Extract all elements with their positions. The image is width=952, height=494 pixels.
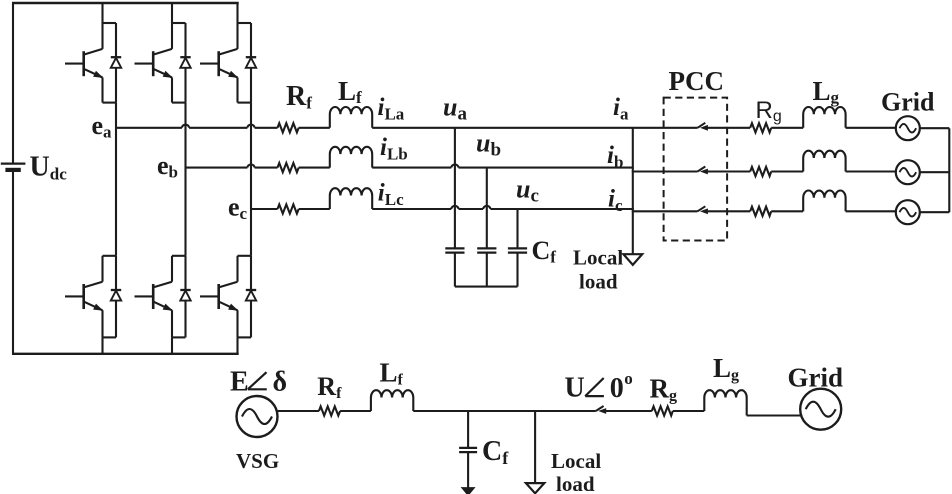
inductor Lg (equivalent) — [704, 390, 746, 415]
source grid phase b — [896, 160, 920, 184]
wire phase a: Rg to Lg — [771, 127, 803, 129]
wire phase c: hop to hop ub — [459, 208, 484, 210]
wire phase b: Rg to Lg — [771, 170, 803, 172]
wire phase b: Lf to hop ua — [372, 167, 451, 169]
svg-text:uc: uc — [516, 175, 539, 207]
transistor Q3 (IGBT upper leg c) — [238, 22, 252, 24]
transistor Q5 (IGBT lower leg b) — [172, 255, 186, 257]
wire phase c: Lg to grid source — [846, 210, 896, 212]
wire phase b: grid source to neutral bus — [920, 171, 950, 173]
svg-text:Udc: Udc — [30, 151, 68, 183]
svg-text:E: E — [230, 367, 249, 398]
battery Udc positive plate — [1, 162, 26, 164]
svg-text:Lg: Lg — [713, 353, 739, 384]
wire leg b bottom rail drop — [171, 337, 173, 353]
inductor Lf phase b — [330, 147, 372, 168]
wire DC bus left bottom — [12, 170, 14, 354]
svg-text:U: U — [565, 373, 585, 404]
source Grid (equivalent) — [800, 389, 841, 430]
wire phase a: Rf to Lf — [299, 127, 330, 129]
resistor Rg phase c — [750, 207, 771, 216]
wire DC bus left top — [12, 2, 14, 164]
source grid phase a — [896, 116, 920, 140]
wire grid neutral bus — [948, 128, 950, 212]
wire Rf to Lf — [340, 410, 371, 412]
capacitor Cf phase a — [454, 247, 456, 249]
resistor Rf (equivalent) — [319, 406, 340, 415]
wire u_c branch vertical — [516, 209, 518, 248]
svg-text:ua: ua — [443, 93, 467, 125]
ground arrow under Cf — [462, 488, 474, 494]
wire local load branch (bottom) — [534, 411, 536, 483]
diode D3 (antiparallel upper leg c) — [250, 23, 252, 103]
wire local load branch — [632, 128, 634, 254]
svg-text:Cf: Cf — [482, 436, 509, 468]
wire leg b top rail drop — [171, 3, 173, 23]
wire phase c: Lf to hop ua — [372, 208, 451, 210]
wire phase c: grid source to neutral bus — [920, 211, 950, 213]
wire capacitor common bus — [455, 286, 518, 288]
wire phase c: hop to load node — [490, 208, 633, 210]
transistor Q1 (IGBT upper leg a) — [103, 22, 117, 24]
inductor Lg phase c — [803, 191, 845, 212]
svg-text:PCC: PCC — [669, 66, 725, 96]
wire phase c: e_c to Rf — [251, 208, 278, 210]
wire phase c: Rf to Lf — [299, 208, 330, 210]
svg-text:iLa: iLa — [378, 94, 405, 123]
hop phase c over u_b branch — [483, 206, 490, 209]
wire Rg to Lg — [673, 410, 705, 412]
wire phase c: load node to switch — [632, 210, 698, 212]
PCC boundary (dashed box) — [664, 98, 728, 241]
diode D5 (antiparallel lower leg b) — [184, 256, 186, 338]
wire u_a branch vertical — [454, 128, 456, 249]
svg-text:ib: ib — [607, 142, 623, 171]
resistor Rg (equivalent) — [652, 406, 673, 415]
wire phase b: switch to Rg — [703, 170, 750, 172]
wire Cf branch (bottom) — [467, 411, 469, 447]
transistor Q4 (IGBT lower leg a) — [103, 255, 117, 257]
svg-text:ub: ub — [476, 129, 501, 161]
wire phase a: switch to Rg — [703, 127, 750, 129]
wire switch to Rg — [602, 410, 652, 412]
svg-text:0: 0 — [610, 373, 624, 404]
hop phase a over leg b — [182, 125, 189, 128]
svg-text:ic: ic — [608, 186, 623, 215]
svg-text:Grid: Grid — [881, 88, 935, 117]
wire phase a: e_a to hop1 — [116, 127, 182, 129]
inductor Lg phase b — [803, 151, 845, 172]
hop phase c over u_a branch — [451, 206, 458, 209]
wire bottom DC rail — [12, 353, 239, 355]
svg-text:iLc: iLc — [378, 180, 404, 209]
svg-text:Rg: Rg — [756, 97, 782, 125]
wire VSG to Rf — [277, 410, 319, 412]
diode D4 (antiparallel lower leg a) — [115, 256, 117, 338]
battery Udc negative plate — [5, 168, 20, 172]
svg-text:iLb: iLb — [380, 134, 408, 163]
wire top DC rail — [12, 2, 239, 4]
wire leg a midpoint vertical — [115, 103, 117, 256]
switch S4 (grid connect) — [596, 406, 604, 411]
wire Lg to grid source — [747, 414, 802, 416]
wire phase b: hop to Rf — [255, 167, 278, 169]
resistor Rf phase a — [278, 123, 299, 132]
svg-text:Lf: Lf — [380, 357, 404, 388]
capacitor Cf phase b — [486, 247, 488, 249]
local load arrow (top) — [623, 254, 642, 265]
svg-text:δ: δ — [273, 367, 288, 398]
svg-text:Lg: Lg — [813, 76, 840, 107]
wire phase a: Lf to switch — [372, 127, 697, 129]
hop phase a over leg c — [247, 125, 254, 128]
svg-text:eb: eb — [157, 151, 178, 181]
diode D2 (antiparallel upper leg b) — [184, 23, 186, 103]
source VSG (E angle delta) — [237, 396, 278, 437]
wire phase b: load node to switch — [632, 170, 698, 172]
svg-text:Grid: Grid — [788, 363, 844, 393]
wire phase b: Lg to grid source — [846, 170, 896, 172]
resistor Rg phase b — [750, 167, 771, 176]
wire leg c top rail drop — [236, 3, 238, 23]
transistor Q6 (IGBT lower leg c) — [238, 255, 252, 257]
wire phase c: switch to Rg — [703, 210, 750, 212]
switch S1 phase a (PCC breaker) — [698, 123, 706, 128]
svg-text:Rf: Rf — [317, 372, 342, 402]
svg-text:o: o — [624, 369, 633, 388]
source grid phase c — [896, 200, 920, 224]
svg-text:ia: ia — [613, 94, 629, 123]
inductor Lf (equivalent) — [371, 390, 413, 411]
hop phase b over u_a branch — [451, 165, 458, 168]
capacitor Cf (equivalent) — [459, 447, 477, 449]
wire leg b midpoint vertical — [184, 103, 186, 256]
resistor Rg phase a — [750, 123, 771, 132]
transistor Q2 (IGBT upper leg b) — [172, 22, 186, 24]
wire phase b: Rf to Lf — [299, 167, 330, 169]
diode D6 (antiparallel lower leg c) — [250, 256, 252, 338]
switch S3 phase c (PCC breaker) — [698, 206, 706, 211]
resistor Rf phase c — [278, 204, 299, 213]
wire phase a: Lg to grid source — [846, 127, 896, 129]
wire phase b: hop to load node — [459, 167, 634, 169]
wire phase b: e_b to hop — [186, 167, 248, 169]
inductor Lf phase c — [330, 188, 372, 209]
svg-text:load: load — [579, 270, 618, 294]
wire phase a: hop2 to Rf — [255, 127, 278, 129]
diode D1 (antiparallel upper leg a) — [115, 23, 117, 103]
wire Lf to switch — [413, 410, 596, 412]
inductor Lf phase a — [330, 107, 372, 128]
resistor Rf phase b — [278, 163, 299, 172]
wire phase a: grid source to neutral bus — [920, 127, 950, 129]
wire leg c bottom rail drop — [236, 337, 238, 353]
local load arrow (bottom) — [526, 483, 544, 493]
svg-text:ec: ec — [228, 192, 248, 222]
capacitor Cf phase c — [516, 247, 518, 249]
switch S2 phase b (PCC breaker) — [698, 167, 706, 172]
wire phase a: hop1 to hop2 — [189, 127, 247, 129]
svg-text:VSG: VSG — [236, 449, 279, 473]
wire u_b branch vertical — [486, 168, 488, 249]
wire leg c midpoint vertical — [250, 103, 252, 256]
svg-text:Local: Local — [573, 245, 623, 269]
wire leg a bottom rail drop — [101, 337, 103, 353]
wire leg a top rail drop — [101, 3, 103, 23]
hop phase b over leg c — [247, 165, 254, 168]
svg-text:Lf: Lf — [338, 76, 362, 107]
svg-text:Local: Local — [551, 449, 601, 473]
svg-text:ea: ea — [92, 111, 113, 141]
svg-text:Rf: Rf — [286, 81, 312, 113]
svg-text:Rg: Rg — [650, 374, 678, 405]
wire phase c: Rg to Lg — [771, 210, 803, 212]
svg-text:load: load — [556, 472, 595, 494]
inductor Lg phase a — [803, 107, 845, 128]
svg-text:Cf: Cf — [532, 236, 557, 267]
